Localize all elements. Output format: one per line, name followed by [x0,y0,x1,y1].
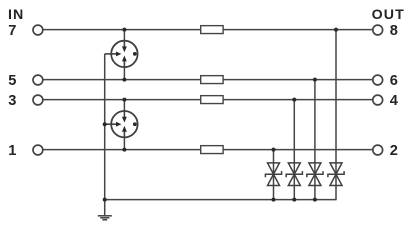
svg-text:8: 8 [390,23,398,39]
svg-text:5: 5 [8,73,16,89]
svg-text:4: 4 [390,93,399,109]
svg-text:1: 1 [8,143,16,159]
svg-text:7: 7 [8,23,16,39]
svg-text:3: 3 [8,93,16,109]
svg-text:2: 2 [390,143,398,159]
svg-text:IN: IN [8,7,24,23]
svg-text:6: 6 [390,73,398,89]
svg-text:OUT: OUT [372,7,405,23]
